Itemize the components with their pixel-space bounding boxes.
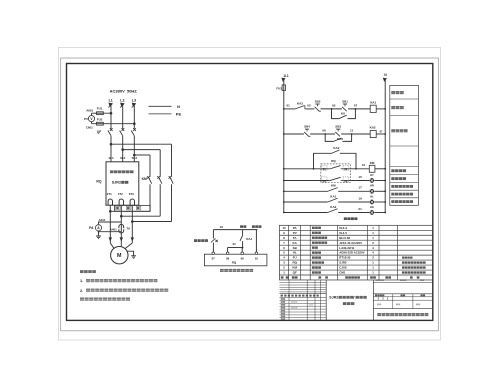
terminal 07 circle (212, 252, 215, 255)
BOM row KM qty (372, 266, 374, 270)
BOM row line 5 (280, 249, 433, 251)
label L3 (132, 99, 136, 103)
BOM row PA index (282, 226, 286, 230)
terminal strip XT (115, 205, 151, 211)
title stage mark boxes (378, 297, 388, 300)
label PE (176, 112, 182, 117)
node bypass-motor junction 1 (131, 220, 134, 223)
BOM row TA index (283, 236, 285, 240)
BOM row PA symbol (293, 226, 298, 230)
motor M (111, 247, 128, 264)
BOM row HL symbol (293, 251, 297, 255)
svg-text:KM: KM (142, 177, 147, 181)
terminal 08 label (226, 257, 230, 261)
contact KM NO aux (327, 184, 338, 192)
node rung2 left bus (283, 133, 285, 135)
BOM row KA index (283, 241, 285, 245)
wire rung1 seg C (321, 108, 342, 110)
title left row 4 (280, 308, 327, 310)
label TA (126, 226, 131, 230)
wire bypass vertical 1 upper (171, 144, 173, 177)
wire estop lower (212, 243, 214, 253)
BOM row KA name (312, 242, 327, 244)
svg-text:M: M (117, 253, 122, 259)
svg-text:1L1: 1L1 (108, 156, 114, 160)
label A401 lower (110, 227, 117, 231)
svg-text:RQ: RQ (292, 261, 297, 265)
RQ terminal box (204, 254, 267, 266)
BOM row HL name (312, 251, 321, 253)
supply arrow L2 (120, 103, 125, 108)
BOM row SB index (283, 246, 285, 250)
wire bypass vertical 1 lower (171, 184, 173, 221)
label L2 (120, 99, 124, 103)
ground PA (96, 236, 101, 239)
title left row 3 (280, 305, 327, 307)
svg-text:09: 09 (322, 129, 326, 133)
ground motor (131, 256, 136, 259)
soft starter RQ box (106, 162, 139, 205)
BOM row QF index (283, 271, 285, 275)
BOM row line 1 (280, 229, 433, 231)
label wire 05 (332, 104, 336, 108)
node branch KA2 left (324, 133, 326, 135)
BOM col line 3 (309, 225, 311, 280)
terminal label 2T1 (107, 192, 112, 196)
node branch KA right (355, 108, 357, 110)
node rung1 left bus (283, 108, 285, 110)
motor PE wire (127, 251, 133, 256)
terminal 05 label (321, 177, 327, 183)
terminal strip tag 1 (116, 206, 120, 210)
svg-text:FU2: FU2 (97, 118, 103, 122)
title left col 289.0 (288, 280, 290, 320)
supply arrow L3 (132, 103, 137, 108)
title left row 7 (280, 317, 327, 319)
contact RQ 05-06 (329, 177, 348, 180)
wire bypass vertical 2 upper (159, 150, 161, 177)
company name (377, 313, 428, 316)
svg-text:17: 17 (358, 186, 362, 190)
drawing title line 2 (343, 302, 355, 305)
label A601 (86, 108, 93, 112)
title revision bottom (280, 293, 327, 295)
wire rung19 seg B (338, 201, 369, 203)
title right row D (373, 299, 432, 301)
title weight label (401, 294, 406, 296)
svg-text:08: 08 (226, 257, 230, 261)
label AC380V 50HZ (110, 88, 138, 93)
caption common (252, 225, 261, 228)
svg-text:01: 01 (287, 104, 291, 108)
contactor KM pole 1 (169, 176, 174, 184)
BOM row FU qty (372, 256, 374, 260)
label KM bypass (142, 177, 147, 181)
BOM row RQ note (402, 261, 426, 263)
wire TA secondary bottom (98, 231, 122, 236)
node rung17 right bus (384, 190, 386, 192)
wire rung2 seg B (310, 133, 335, 135)
wire TA secondary top (99, 222, 122, 225)
BOM row FU model (339, 256, 351, 260)
wire rung19 seg C (375, 201, 386, 203)
svg-text:SB1: SB1 (342, 100, 348, 104)
svg-text:21: 21 (233, 242, 237, 246)
svg-text:03: 03 (307, 104, 311, 108)
wire phase L1 upper (110, 106, 112, 129)
legend divider 8 (390, 197, 419, 199)
svg-text:10: 10 (282, 226, 286, 230)
BOM row QF qty (372, 271, 374, 275)
svg-text:KA1: KA1 (330, 194, 336, 198)
BOM row PV model (339, 231, 347, 235)
svg-text:AC380V 50HZ: AC380V 50HZ (110, 88, 138, 93)
BOM row PA qty (372, 226, 374, 230)
wire rung15 seg B (349, 180, 370, 182)
legend divider 1 (390, 98, 419, 100)
title left col 315.0 (314, 280, 316, 320)
wire motor lead 3 slant (125, 243, 133, 249)
svg-text:19: 19 (358, 196, 362, 200)
wire left bus (283, 80, 285, 213)
lamp HR bypass run (370, 184, 375, 194)
BOM row line 4 (280, 244, 433, 246)
wire bypass return 3 (110, 210, 150, 212)
terminal 01 label (321, 165, 327, 171)
node bypass-motor junction 3 (109, 210, 112, 213)
label wire 09 (322, 129, 326, 133)
legend divider 4 (390, 166, 419, 168)
voltmeter PV (88, 116, 94, 122)
label wire 03 (307, 104, 311, 108)
BOM row line 3 (280, 239, 433, 241)
wire term09 drop (241, 248, 243, 253)
title right row C (373, 296, 432, 298)
svg-text:2.: 2. (80, 289, 83, 293)
terminal label 1L1 (108, 156, 114, 160)
BOM row SB symbol (293, 246, 298, 250)
wire rung21 seg C (375, 212, 386, 214)
wire bypass vertical 2 lower (159, 184, 161, 216)
title signature squiggles (291, 301, 313, 308)
svg-text:SB4: SB4 (304, 125, 310, 129)
svg-text:L1: L1 (109, 99, 113, 103)
BOM row HL index (283, 251, 285, 255)
BOM row QF symbol (293, 271, 297, 275)
BOM row PV symbol (293, 231, 297, 235)
wire rung17 seg B (338, 190, 369, 192)
BOM row FU index (283, 256, 285, 260)
estop button NC (211, 238, 218, 242)
svg-text:3L2: 3L2 (120, 156, 126, 160)
wire motor lead 6T3 (131, 205, 133, 243)
pushbutton SB2 NC (315, 100, 321, 112)
node rung19 right bus (384, 201, 386, 203)
pushbutton SB1 NO (342, 100, 348, 112)
svg-text:N: N (177, 104, 180, 109)
wire KA1s upper (242, 230, 244, 235)
svg-text:10: 10 (220, 225, 224, 229)
BOM row QF note (402, 271, 426, 273)
BOM row SB qty (372, 246, 374, 250)
svg-text:RQ: RQ (232, 261, 237, 265)
sheet page edge (59, 48, 441, 341)
BOM row line 9 (280, 269, 433, 271)
contact KA1 NO aux (327, 194, 338, 202)
svg-text:FU: FU (293, 256, 297, 260)
BOM row PA name (312, 227, 321, 229)
svg-text:06: 06 (344, 179, 348, 183)
contact RQ 01-02 (329, 166, 348, 169)
arrow motor lead x132.3 (131, 237, 134, 241)
BOM row KM symbol (292, 266, 297, 270)
svg-text:21: 21 (358, 207, 362, 211)
svg-text:FU3: FU3 (276, 86, 282, 90)
label wire 17 (358, 186, 362, 190)
supply arrow N bus (383, 78, 387, 82)
supply arrow L1 (108, 103, 113, 108)
node rung19 left bus (283, 201, 285, 203)
wire rung17 seg C (375, 190, 386, 192)
svg-text:PE: PE (176, 112, 182, 117)
svg-text:PV: PV (293, 231, 297, 235)
svg-text:15: 15 (358, 175, 362, 179)
title left row 6 (280, 314, 327, 316)
BOM row KA symbol (293, 241, 298, 245)
svg-text:07: 07 (354, 104, 358, 108)
svg-text:6L2-V: 6L2-V (339, 231, 347, 235)
terminal 10 label (255, 257, 259, 261)
svg-text:PA: PA (89, 226, 94, 230)
wire right bus (384, 80, 386, 213)
terminal label 6T3 (129, 192, 134, 196)
contactor KM pole 3 (147, 176, 152, 184)
label PA (89, 226, 94, 230)
wire bypass vertical 3 upper (149, 155, 151, 177)
terminal 02 label (343, 165, 349, 171)
svg-text:KA2: KA2 (333, 146, 339, 150)
inner border frame (67, 64, 433, 321)
legend text soft run ind (391, 193, 413, 196)
BOM row KA model (339, 241, 362, 245)
svg-text:L3: L3 (132, 99, 136, 103)
arrow motor lead x110.3 (109, 237, 112, 241)
BOM row FU symbol (293, 256, 297, 260)
terminal 10 circle (255, 252, 258, 255)
terminal strip tag 2 (127, 206, 131, 210)
BOM row HL qty (372, 251, 374, 255)
legend text bypass run ind (391, 185, 413, 188)
svg-text:HL: HL (293, 251, 297, 255)
svg-text:10: 10 (255, 257, 259, 261)
legend box (390, 85, 419, 205)
wire bypass return 2 (121, 215, 160, 217)
starter name text (110, 170, 134, 173)
title left col 320.3 (319, 280, 321, 320)
BOM row RQ index (283, 261, 285, 265)
pushbutton SB3 NO (335, 125, 341, 137)
BOM row line 8 (280, 264, 433, 266)
label FU1 (97, 107, 103, 111)
wire PV top (92, 113, 112, 115)
contact KA2 NO direct (331, 146, 340, 153)
BOM col line 6 (378, 225, 380, 280)
wire N (149, 105, 172, 107)
legend text fault ind (391, 177, 406, 180)
BOM row KA qty (372, 241, 374, 245)
contact KA2 NO aux (327, 205, 338, 213)
wire phase L3 upper (133, 106, 135, 129)
BOM row PV name (312, 232, 321, 234)
wire rung13 seg B (349, 168, 370, 170)
relay coil KA1 (370, 100, 376, 112)
svg-text:C601: C601 (86, 125, 93, 129)
node rung13 branch right (355, 168, 357, 170)
node branch KA2 right (351, 133, 353, 135)
breaker QF pole 1 (108, 128, 113, 162)
contact KA2 NO seal-in (333, 137, 343, 142)
title left row 5 (280, 311, 327, 313)
terminal strip tag 3 (136, 206, 140, 210)
title right col 1 (392, 294, 394, 309)
label QF (97, 130, 101, 134)
node L1-FU1 junction (110, 112, 113, 115)
BOM row line 2 (280, 234, 433, 236)
label wire 11 (350, 129, 354, 133)
contactor KM pole 2 (157, 176, 162, 184)
wire bypass top 1 (111, 143, 172, 145)
wire rung1 seg A (284, 108, 295, 110)
svg-text:KA2: KA2 (370, 126, 376, 130)
svg-text:PV: PV (84, 117, 88, 121)
label RQ starter (96, 180, 101, 184)
svg-text:KM: KM (370, 161, 375, 165)
title right col 2 (412, 294, 414, 309)
caption control terminals (220, 269, 253, 272)
svg-text:SB3: SB3 (335, 125, 341, 129)
contact KA2 NC rung1 (295, 101, 305, 109)
title header row bottom (280, 297, 327, 299)
BOM row KM note (402, 266, 426, 268)
BOM row KM name (312, 266, 321, 268)
legend text fuse (391, 91, 403, 94)
wire KA2-KM branch left (314, 153, 332, 169)
title scale label (421, 294, 426, 296)
title revision header text (281, 295, 319, 297)
caption secondary circuit (344, 217, 358, 220)
arrow motor lead x121.3 (120, 237, 123, 241)
label L1 (109, 99, 113, 103)
terminal 07 label (212, 257, 216, 261)
BOM header (281, 276, 420, 278)
BOM col line 4 (337, 225, 339, 280)
BOM row PA model (339, 226, 348, 230)
notes line 1 (80, 279, 157, 283)
wire rung2 seg D (376, 133, 385, 135)
svg-text:2T1: 2T1 (107, 192, 112, 196)
title small code row (376, 279, 425, 281)
wire PV bottom (92, 122, 135, 124)
svg-text:AD56-22D AC220V: AD56-22D AC220V (339, 251, 364, 255)
legend divider 2 (390, 115, 419, 117)
svg-text:HY: HY (370, 173, 374, 177)
lamp HG direct run (370, 205, 375, 215)
BOM row TA symbol (293, 236, 298, 240)
svg-text:RQ: RQ (96, 180, 101, 184)
label N bus (384, 73, 387, 77)
wire KA1s lower (242, 241, 244, 247)
legend text soft start (391, 106, 403, 109)
ammeter PA (95, 225, 101, 231)
BOM row PV index (283, 231, 285, 235)
fuse FU3 (282, 85, 285, 91)
svg-text:QF: QF (293, 271, 297, 275)
label wire 15 (358, 175, 362, 179)
terminal 09 circle (241, 252, 244, 255)
drawing title line 1 (329, 296, 366, 300)
svg-text:11: 11 (350, 129, 354, 133)
svg-text:01: 01 (323, 167, 327, 171)
wire phase L2 upper (122, 106, 124, 129)
svg-text:KM: KM (292, 266, 297, 270)
title right row B (373, 293, 432, 295)
svg-text:05: 05 (323, 179, 327, 183)
node phase L1 bypass tap (110, 143, 113, 146)
title left row 1 (280, 299, 327, 301)
title revision row 1 (280, 282, 327, 284)
node rung13 branch left (313, 168, 315, 170)
BOM row RQ name (312, 261, 324, 263)
supply arrow 1L1 (281, 78, 285, 82)
terminal clamp 2T1 (108, 199, 112, 205)
svg-text:CM1: CM1 (339, 271, 345, 275)
label FU3 (276, 86, 282, 90)
terminal clamp 4T2 (119, 199, 123, 205)
label RQ terms (232, 261, 237, 265)
node rung21 left bus (283, 212, 285, 214)
BOM col line 7 (397, 225, 399, 280)
pushbutton SB4 NC (304, 125, 310, 137)
title left col 307.2 (306, 280, 308, 320)
wire motor lead 1 slant (110, 243, 114, 249)
wire rung21 seg B (338, 212, 369, 214)
label wire 19 (358, 196, 362, 200)
svg-text:RT18-32: RT18-32 (339, 256, 351, 260)
svg-text:KA1: KA1 (246, 237, 252, 241)
svg-text:SB2: SB2 (315, 100, 321, 104)
BOM row PV qty (372, 231, 374, 235)
label wire 07b (380, 129, 383, 133)
BOM table frame (280, 225, 433, 280)
node rung1 right bus (384, 108, 386, 110)
svg-text:HL: HL (370, 194, 374, 198)
terminal clamp 6T3 (130, 199, 134, 205)
BOM row line 6 (280, 254, 433, 256)
svg-text:KA1: KA1 (370, 100, 376, 104)
wire estop upper (212, 230, 214, 239)
legend text bypass run (391, 169, 406, 172)
svg-text:07: 07 (212, 257, 216, 261)
BOM col line 1 (288, 225, 290, 280)
wire term10 drop (255, 230, 257, 253)
svg-text:A401: A401 (110, 227, 117, 231)
node rung2 right bus (384, 133, 386, 135)
terminal label 4T2 (118, 192, 123, 196)
legend divider 6 (390, 182, 419, 184)
svg-text:RQ: RQ (331, 159, 336, 163)
legend text direct start (391, 129, 407, 132)
label wire 10 (220, 225, 224, 229)
